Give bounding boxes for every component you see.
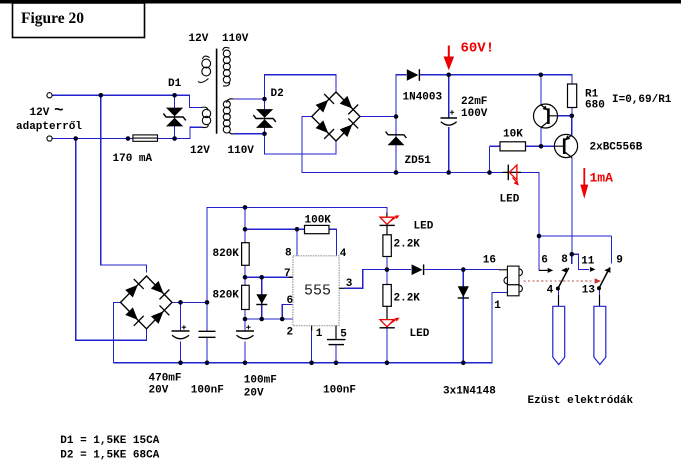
wire D1 to transformer primary top <box>175 95 202 107</box>
wire bridge1 right vertex to zener node <box>360 116 396 118</box>
wire AC2 branch down to bridge2 bottom <box>76 139 147 341</box>
svg-text:adapterről: adapterről <box>16 121 82 133</box>
B1 diode lower-right <box>339 119 359 139</box>
zener ZD51 <box>386 132 407 146</box>
wire ground rail to relay pin1 <box>114 293 508 363</box>
wire pin 3 to node16 <box>344 270 499 289</box>
wire top input line <box>52 94 175 96</box>
svg-text:100nF: 100nF <box>191 385 224 397</box>
svg-text:D1 = 1,5KE 15CA: D1 = 1,5KE 15CA <box>60 435 159 447</box>
wire 100mF leads <box>244 319 246 363</box>
svg-text:13: 13 <box>582 285 596 297</box>
wire horizontal to contact 9 <box>539 235 612 237</box>
resistor 2.2K upper <box>383 235 391 257</box>
resistor 10K <box>500 142 526 151</box>
B1 diode upper-right <box>339 95 359 115</box>
555 pin stubs <box>289 277 344 339</box>
transformer core <box>216 49 218 134</box>
LED red (top of 2.2K chain) <box>380 213 400 235</box>
switch B contact 9 arrow <box>604 268 610 273</box>
transistor Q1 <box>534 104 558 128</box>
wire D1 to transformer primary bottom <box>175 127 202 138</box>
svg-text:16: 16 <box>483 255 496 267</box>
wire 100nF1 leads <box>206 302 208 362</box>
terminal bottom input <box>47 136 52 141</box>
transformer secondary lower winding 110V <box>223 99 233 134</box>
capacitor 22mF 100V <box>441 110 458 125</box>
svg-text:60V!: 60V! <box>461 41 495 57</box>
wire lever A to electrode 1 <box>558 289 560 303</box>
svg-text:LED: LED <box>414 220 434 232</box>
capacitor 470mF 20V <box>172 325 190 339</box>
wire 100nF2 lower lead <box>335 345 337 363</box>
svg-text:2xBC556B: 2xBC556B <box>590 142 643 154</box>
wire zener node up and to 1N4003 <box>396 75 449 117</box>
wire 1N4148a vertical <box>261 277 263 319</box>
bridge rectifier B2 (12V) <box>121 276 173 329</box>
wire secondary bottom lead to D2 <box>234 133 265 135</box>
svg-text:4: 4 <box>547 285 554 297</box>
wire Q2 collector down to switch node <box>571 158 573 255</box>
wire Q2 emitter up <box>571 116 573 136</box>
wire 2.2K chain verticals <box>386 257 388 363</box>
relay coil K <box>499 266 522 296</box>
svg-text:8: 8 <box>561 254 568 266</box>
terminal top input <box>47 93 52 98</box>
svg-text:LED: LED <box>410 328 430 340</box>
svg-text:170 mA: 170 mA <box>113 153 153 165</box>
switch B contact 11 arrow <box>590 267 596 272</box>
resistor 100K <box>305 225 330 233</box>
IC 555 timer box <box>293 256 339 326</box>
svg-text:7: 7 <box>284 268 291 280</box>
transistor Q2 <box>554 134 577 157</box>
diode 1N4003 <box>407 69 420 81</box>
svg-text:D2 = 1,5KE 68CA: D2 = 1,5KE 68CA <box>60 449 159 461</box>
svg-text:555: 555 <box>304 283 331 300</box>
resistor 820K lower <box>242 285 250 309</box>
svg-text:12V: 12V <box>189 33 209 45</box>
transformer primary upper winding (unused) <box>198 56 211 82</box>
switch A lever <box>556 268 569 291</box>
svg-text:470mF: 470mF <box>149 372 182 384</box>
switch A contact 6 arrow <box>539 268 553 273</box>
wire contact 9 vertical <box>611 236 613 264</box>
resistor 820K upper <box>242 243 250 266</box>
svg-text:680: 680 <box>585 100 605 112</box>
svg-text:Figure 20: Figure 20 <box>21 10 84 27</box>
svg-text:2.2K: 2.2K <box>394 293 421 305</box>
wire Q1 base to R1 node <box>558 115 572 117</box>
bridge rectifier B1 (110V) <box>312 92 360 141</box>
diode 1N4148 b (horizontal) <box>412 264 424 275</box>
wire bridge2 right vertex to supply <box>172 207 387 302</box>
svg-text:12V: 12V <box>190 145 210 157</box>
switch A contact 8 arrow <box>561 268 567 273</box>
svg-text:6: 6 <box>541 255 548 267</box>
wire 1N4148c vertical <box>462 270 464 363</box>
wire lever B to electrode 2 <box>599 288 601 302</box>
B2 diode upper-right <box>150 280 170 300</box>
wire Q1 collector down <box>540 128 542 147</box>
svg-text:22mF: 22mF <box>461 96 487 108</box>
wire D1 vertical <box>174 95 176 138</box>
electrode 1 lead <box>558 295 560 306</box>
svg-text:100V: 100V <box>461 108 488 120</box>
capacitor 100nF (first) <box>199 331 216 337</box>
B2 diode upper-left <box>124 279 144 299</box>
svg-text:12V: 12V <box>30 107 50 119</box>
wire 820K chain verticals <box>244 207 246 319</box>
wire contact 8 stub <box>571 254 573 264</box>
wire zener ZD51 vertical <box>395 117 397 173</box>
red 60V arrow <box>444 46 455 71</box>
transformer secondary upper winding (unused) <box>223 47 231 86</box>
svg-text:~: ~ <box>54 102 64 120</box>
svg-text:1: 1 <box>494 300 501 312</box>
top border bar <box>0 0 681 4</box>
svg-text:10K: 10K <box>503 129 523 141</box>
wire contact 6 vertical <box>538 236 540 270</box>
svg-text:820K: 820K <box>213 248 240 260</box>
svg-text:4: 4 <box>340 248 347 260</box>
LED red (bottom of 2.2K chain) <box>380 306 400 328</box>
svg-text:1: 1 <box>316 328 323 340</box>
wire bottom input line <box>52 138 175 140</box>
svg-text:D2: D2 <box>271 88 284 100</box>
wire to pin 6 <box>282 304 293 319</box>
svg-text:D1: D1 <box>168 78 182 90</box>
relay actuation dashed red line <box>524 278 602 283</box>
svg-text:3: 3 <box>346 278 353 290</box>
red 1mA arrow <box>580 168 588 199</box>
TVS diode D1 <box>163 108 185 127</box>
svg-text:110V: 110V <box>222 33 249 45</box>
svg-text:20V: 20V <box>244 387 264 399</box>
svg-text:1mA: 1mA <box>590 171 614 186</box>
wire bridge1 left vertex to minus rail <box>302 117 503 173</box>
wire to pin 7 <box>245 276 293 278</box>
svg-text:6: 6 <box>287 295 294 307</box>
resistor 2.2K lower <box>383 285 391 307</box>
wire 470mF leads <box>180 302 182 362</box>
svg-text:9: 9 <box>616 255 623 267</box>
capacitor 100nF (under pin5) <box>327 340 346 345</box>
wire 22mF cap leads <box>448 75 450 173</box>
electrode 1 <box>553 306 565 364</box>
electrode 2 lead <box>599 295 601 306</box>
wire AC1 branch down to bridge2 top <box>101 95 147 272</box>
svg-text:110V: 110V <box>228 145 255 157</box>
B2 diode lower-right <box>150 305 170 325</box>
wire D2 top to bridge1 top vertex <box>265 75 337 99</box>
svg-text:1N4003: 1N4003 <box>403 92 443 104</box>
B1 diode upper-left <box>314 94 334 114</box>
diode 1N4148 a (by 555) <box>256 294 267 304</box>
transformer primary lower winding 12V <box>202 107 211 127</box>
svg-text:11: 11 <box>581 255 595 267</box>
svg-text:100nF: 100nF <box>323 385 356 397</box>
resistor R1 680 <box>568 84 577 108</box>
LED on minus rail <box>503 165 522 186</box>
svg-text:Ezüst elektródák: Ezüst elektródák <box>528 395 634 407</box>
wire R1 bottom lead <box>571 108 573 116</box>
diode 1N4148 c (vertical) <box>458 286 469 298</box>
wire D2 bottom to bridge1 bottom vertex <box>265 134 337 154</box>
svg-text:100mF: 100mF <box>244 375 277 387</box>
B1 diode lower-left <box>314 119 334 139</box>
B2 diode lower-left <box>124 306 144 326</box>
wire contact 11 jog <box>572 254 589 269</box>
fuse 170mA <box>133 135 158 141</box>
svg-text:2.2K: 2.2K <box>394 239 421 251</box>
svg-text:8: 8 <box>285 247 292 259</box>
svg-text:ZD51: ZD51 <box>405 155 432 167</box>
svg-text:3x1N4148: 3x1N4148 <box>443 385 496 397</box>
wire LED rail corner down <box>521 173 540 237</box>
wire pin 1 to rail <box>311 330 313 363</box>
svg-text:LED: LED <box>500 193 520 205</box>
svg-text:I=0,69/R1: I=0,69/R1 <box>612 94 672 106</box>
electrode 2 <box>594 306 606 364</box>
svg-text:2: 2 <box>287 327 294 339</box>
wire 10K to Q2 base <box>526 145 555 147</box>
wire 60V node to R1 top <box>449 75 572 84</box>
capacitor 100mF 20V <box>236 325 254 339</box>
wire 10K left lead down to rail <box>490 146 501 172</box>
svg-text:5: 5 <box>340 329 347 341</box>
wire node16 to relay coil <box>463 269 499 271</box>
switch B lever <box>597 268 610 291</box>
wire 100K branch <box>245 229 337 256</box>
wire bridge2 left vertex to rail <box>114 302 121 362</box>
wire D2 vertical <box>264 99 266 134</box>
wire secondary top lead to D2 <box>234 98 265 100</box>
wire bottom 555 horizontal to pin 2 <box>245 318 293 320</box>
wire Q1 emitter up to rail <box>540 75 542 105</box>
svg-text:20V: 20V <box>149 385 169 397</box>
svg-text:820K: 820K <box>213 289 240 301</box>
figure title box <box>13 3 145 38</box>
svg-text:100K: 100K <box>305 214 332 226</box>
TVS diode D2 <box>253 109 275 128</box>
